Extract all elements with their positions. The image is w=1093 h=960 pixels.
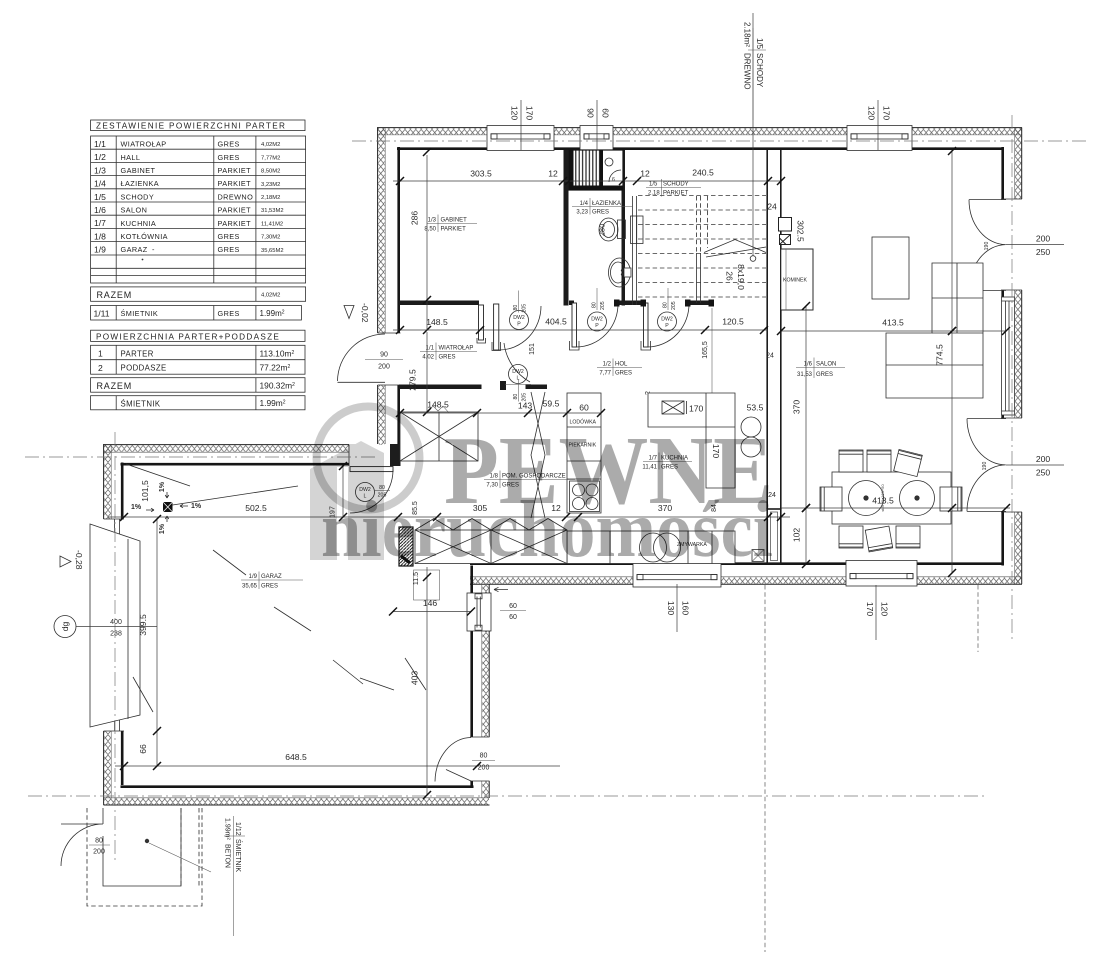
kitchen bottom counter [567, 531, 735, 564]
axis dashdot right wall [1011, 115, 1013, 640]
svg-text:ŁAZIENKA: ŁAZIENKA [592, 201, 621, 207]
svg-text:WIATROŁAP: WIATROŁAP [439, 346, 474, 352]
folding door kitchen/pomgosp [531, 392, 545, 518]
svg-text:165,5: 165,5 [702, 341, 709, 359]
svg-text:2.18: 2.18 [648, 191, 660, 197]
salon rug table [872, 237, 909, 299]
svg-text:302.5: 302.5 [796, 220, 806, 242]
entrance door dim 90/200 [365, 352, 403, 371]
salon double door bottom arcs [967, 419, 1006, 512]
svg-text:250: 250 [1036, 247, 1051, 257]
svg-text:90: 90 [586, 108, 596, 118]
room label wiatrolap [420, 343, 477, 361]
small box below boiler [414, 570, 440, 600]
salon double door top arcs [969, 200, 1006, 291]
svg-text:1/6: 1/6 [804, 362, 813, 368]
axis dashdot left wing wall [114, 432, 116, 862]
window east wall 60/60 [467, 593, 491, 631]
svg-text:400: 400 [110, 619, 122, 626]
svg-text:SCHODY: SCHODY [121, 192, 155, 201]
svg-text:-: - [152, 245, 155, 254]
svg-text:1/3: 1/3 [428, 218, 437, 224]
svg-text:1/3: 1/3 [94, 165, 106, 175]
svg-text:1/12: 1/12 [234, 822, 241, 836]
svg-text:120: 120 [880, 602, 890, 617]
svg-text:80: 80 [95, 838, 103, 845]
dim east window 60/60 [500, 603, 526, 621]
svg-text:HOL: HOL [615, 362, 628, 368]
entrance door arc [338, 334, 386, 381]
top wall outer line [377, 127, 1022, 129]
svg-text:1/2: 1/2 [603, 362, 612, 368]
svg-text:12: 12 [548, 169, 558, 179]
svg-text:11,41M2: 11,41M2 [261, 221, 283, 227]
dim east door 80/200 [472, 753, 495, 772]
svg-text:60: 60 [509, 614, 517, 621]
svg-text:DW2: DW2 [661, 317, 673, 323]
pomgosp counter with X [415, 530, 567, 564]
dim corridor 146 y611 [389, 598, 475, 616]
level marker -0.02 entrance [344, 303, 370, 323]
chairs bottom row [839, 526, 920, 552]
door gabinet arc [499, 306, 541, 350]
svg-text:53.5: 53.5 [747, 403, 764, 413]
svg-text:GRES: GRES [615, 371, 632, 377]
room label hol [597, 359, 642, 377]
salon door dim 200/250 top [984, 234, 1064, 258]
svg-text:GRES: GRES [218, 245, 240, 254]
svg-text:205: 205 [600, 301, 606, 310]
window W2 lazienka 90/60 [580, 126, 613, 151]
svg-text:PARTER: PARTER [121, 349, 154, 358]
svg-text:205: 205 [522, 304, 528, 313]
svg-text:200: 200 [478, 765, 490, 772]
svg-text:P: P [665, 323, 669, 329]
room label pomgosp [484, 471, 575, 489]
axis dashdot wing bottom [28, 795, 985, 797]
svg-text:1/2: 1/2 [94, 152, 106, 162]
pomgosp counter hanger zigzag [415, 519, 567, 531]
room label salon [796, 358, 845, 379]
garage drain [163, 502, 173, 512]
svg-text:1/9: 1/9 [94, 245, 106, 255]
svg-text:200: 200 [1036, 234, 1051, 244]
svg-text:1/7: 1/7 [94, 218, 106, 228]
wall schody/salon double [767, 150, 781, 306]
svg-text:1/4: 1/4 [580, 201, 589, 207]
svg-text:1%: 1% [159, 523, 166, 534]
radiator niche lazienka [631, 216, 644, 244]
svg-text:1.99m2: 1.99m2 [260, 398, 286, 408]
table 1 razem box [91, 287, 306, 301]
wall hall north segments [569, 300, 713, 305]
svg-text:KOMINEK: KOMINEK [783, 278, 807, 284]
svg-text:P: P [517, 322, 521, 328]
dim chain pomgosp y413 [396, 399, 605, 418]
svg-text:GRES: GRES [261, 584, 278, 590]
stairs side wall lines [633, 196, 637, 305]
svg-text:413.5: 413.5 [882, 318, 904, 328]
svg-text:1/11: 1/11 [94, 308, 110, 318]
svg-text:26: 26 [725, 271, 735, 281]
svg-text:60: 60 [579, 403, 589, 413]
dim chain lazienka walls y181 [393, 168, 785, 212]
axis dashdot wing top wall [25, 456, 377, 458]
window W3 salon top 120/170 [847, 126, 912, 151]
svg-text:280: 280 [598, 224, 607, 237]
svg-text:66: 66 [138, 744, 148, 754]
axis dashed below kitchen [764, 585, 766, 952]
svg-text:PARKIET: PARKIET [218, 179, 252, 188]
garage slope arrows and labels [131, 481, 202, 534]
entry arrow corridor [494, 587, 508, 591]
table 2 header box [91, 330, 305, 341]
svg-text:KOTŁÓWNIA: KOTŁÓWNIA [121, 232, 168, 241]
garage east door arc [435, 738, 471, 782]
svg-text:2.18m²: 2.18m² [743, 22, 752, 47]
svg-text:DW2: DW2 [512, 369, 524, 375]
washbasin [609, 258, 632, 287]
svg-text:286: 286 [410, 211, 420, 226]
svg-text:SALON: SALON [816, 362, 836, 368]
garage wing east wall [470, 566, 490, 799]
svg-text:399.5: 399.5 [138, 614, 148, 636]
bar stools [741, 417, 761, 437]
table 1 header box [91, 120, 305, 131]
sofa L-shape [886, 263, 983, 398]
svg-text:80: 80 [513, 394, 519, 400]
chair left [820, 487, 842, 511]
svg-text:774.5: 774.5 [935, 344, 945, 366]
svg-text:GRES: GRES [816, 372, 833, 378]
smietnik dashed boundary [87, 808, 202, 906]
wall kitchen/salon double [767, 306, 781, 510]
svg-text:GRES: GRES [592, 210, 609, 216]
door bubble gabinet [510, 291, 529, 330]
svg-text:nieruchomości: nieruchomości [321, 484, 773, 574]
toilet [599, 218, 626, 241]
svg-text:190: 190 [984, 242, 990, 251]
svg-text:GABINET: GABINET [441, 218, 468, 224]
svg-text:1: 1 [98, 349, 103, 359]
svg-text:1/5: 1/5 [649, 182, 658, 188]
garage wing left wall [104, 444, 124, 805]
marker dg circle [54, 616, 76, 638]
garage door panel in left wall [115, 519, 120, 731]
table 2 grid [91, 345, 305, 374]
svg-text:8x19,0: 8x19,0 [736, 264, 746, 290]
svg-text:80: 80 [480, 753, 488, 760]
svg-text:113.10m2: 113.10m2 [260, 348, 295, 358]
smietnik leader dot [145, 839, 149, 843]
svg-text:ŁAZIENKA: ŁAZIENKA [121, 179, 159, 188]
jamb south wall [500, 381, 506, 390]
kitchen island [648, 393, 735, 488]
svg-text:403: 403 [410, 671, 420, 686]
svg-text:24: 24 [767, 202, 777, 212]
dim garage bottom y766 [115, 752, 560, 770]
svg-text:DW2: DW2 [591, 317, 603, 323]
svg-text:60: 60 [601, 108, 611, 118]
garage ramp trapezoid [90, 524, 153, 727]
table 1 grid [91, 136, 306, 283]
svg-text:PARKIET: PARKIET [218, 219, 252, 228]
smietnik door arc [61, 824, 103, 866]
level marker -0.28 [60, 550, 84, 570]
svg-text:102: 102 [792, 528, 802, 543]
door bubble garage top [356, 483, 391, 502]
smietnik door dim 80/200 [89, 838, 110, 856]
shower lazienka [569, 150, 623, 190]
top wall insulation hatch [377, 128, 1022, 135]
wall lazienka east [622, 150, 626, 306]
stairs cut mark [704, 240, 766, 258]
svg-text:240.5: 240.5 [692, 168, 714, 178]
stairs leader circle [750, 256, 756, 262]
svg-text:170: 170 [525, 106, 535, 121]
axis dashdot top wall [352, 140, 1086, 142]
window label W2 90/60 [586, 100, 611, 150]
svg-text:DW2: DW2 [513, 315, 525, 321]
svg-text:24: 24 [766, 353, 774, 360]
svg-text:80: 80 [663, 302, 669, 308]
svg-text:120: 120 [510, 106, 520, 121]
svg-text:35,65M2: 35,65M2 [261, 248, 284, 254]
svg-text:151: 151 [529, 343, 536, 355]
door gabinet leaf parked [479, 305, 484, 340]
svg-text:31,53M2: 31,53M2 [261, 208, 284, 214]
svg-text:12: 12 [640, 169, 650, 179]
svg-text:GRES: GRES [218, 153, 240, 162]
table 2 razem box [91, 378, 305, 393]
kominek body [781, 249, 813, 310]
kominek flue square 1 [779, 218, 792, 232]
stairs treads dashed [638, 196, 766, 298]
svg-text:1.99m2: 1.99m2 [260, 309, 285, 318]
window W5 salon bottom 120/170 [846, 561, 917, 587]
svg-text:1%: 1% [131, 504, 142, 511]
window label W5 salon 120/170 [865, 585, 890, 640]
svg-text:SCHODY: SCHODY [755, 53, 764, 88]
table 1 smietnik row [91, 306, 302, 321]
svg-text:2: 2 [98, 363, 103, 373]
svg-text:170: 170 [689, 404, 704, 414]
svg-text:-0,02: -0,02 [360, 303, 370, 323]
wall lazienka west [564, 150, 569, 306]
svg-text:1.99m²: 1.99m² [224, 818, 231, 840]
table 2 smietnik box [91, 396, 305, 410]
salon door dim 200/250 bottom [982, 454, 1064, 478]
svg-text:80: 80 [592, 302, 598, 308]
garage wing top wall [104, 444, 401, 466]
door bubble schody [658, 288, 678, 331]
svg-text:190.32m2: 190.32m2 [260, 380, 296, 390]
svg-text:DREWNO: DREWNO [743, 53, 752, 89]
axis dashed below salon [977, 585, 979, 652]
dim salon vertical x806 [792, 302, 811, 568]
svg-text:404.5: 404.5 [545, 317, 567, 327]
svg-text:HALL: HALL [121, 153, 141, 162]
svg-text:6: 6 [612, 177, 615, 183]
svg-text:7,30M2: 7,30M2 [261, 235, 280, 241]
svg-text:GRES: GRES [218, 232, 240, 241]
dim salon vertical x952 [935, 147, 957, 577]
garage top door leaf and arc [350, 471, 393, 514]
smietnik walls [103, 808, 181, 886]
svg-text:SALON: SALON [121, 206, 148, 215]
smietnik label rotated [224, 816, 246, 936]
svg-text:120: 120 [867, 106, 877, 121]
svg-text:8,50M2: 8,50M2 [261, 169, 280, 175]
drain square X floor [752, 550, 764, 562]
svg-text:130: 130 [666, 601, 676, 616]
dim chain hall y330 [393, 317, 774, 360]
svg-text:dg: dg [60, 622, 70, 632]
svg-text:POWIERZCHNIA PARTER+PODDASZE: POWIERZCHNIA PARTER+PODDASZE [96, 332, 280, 341]
svg-text:303.5: 303.5 [470, 169, 492, 179]
svg-text:ŚMIETNIK: ŚMIETNIK [121, 309, 159, 318]
svg-text:3,23: 3,23 [576, 210, 588, 216]
svg-text:648.5: 648.5 [285, 752, 307, 762]
svg-text:200: 200 [93, 849, 105, 856]
door schody leaf [644, 303, 649, 347]
right wall window tall [1002, 297, 1015, 415]
room label garaz [241, 572, 303, 590]
svg-text:ŚMIETNIK: ŚMIETNIK [234, 839, 243, 872]
garage door dim 400/238 [76, 619, 157, 638]
svg-text:GRES: GRES [218, 309, 240, 318]
svg-text:148.5: 148.5 [426, 317, 448, 327]
boiler block [399, 527, 413, 566]
extension line kitchen boundary [711, 308, 713, 396]
island sink [662, 401, 687, 414]
svg-text:GRES: GRES [218, 140, 240, 149]
svg-text:101,5: 101,5 [140, 480, 150, 502]
garage slope diagonals [126, 464, 426, 690]
dim chain main y517 [108, 492, 790, 521]
svg-text:502.5: 502.5 [245, 503, 267, 513]
svg-text:stół 90x160+50: stół 90x160+50 [880, 484, 885, 512]
svg-text:1%: 1% [159, 481, 166, 492]
svg-text:170: 170 [882, 106, 892, 121]
svg-text:279.5: 279.5 [408, 369, 418, 391]
svg-text:2,18M2: 2,18M2 [261, 195, 280, 201]
svg-text:RAZEM: RAZEM [97, 290, 133, 300]
svg-text:ZESTAWIENIE POWIERZCHNI PARTER: ZESTAWIENIE POWIERZCHNI PARTER [96, 122, 286, 131]
svg-text:250: 250 [1036, 468, 1051, 478]
room label kuchnia [642, 453, 692, 471]
svg-text:GARAZ: GARAZ [261, 574, 282, 580]
room label gabinet [424, 215, 477, 233]
svg-text:SCHODY: SCHODY [663, 182, 689, 188]
svg-text:RAZEM: RAZEM [97, 381, 133, 391]
door bubble lazienka [588, 288, 607, 331]
door jamb marks hall [614, 300, 714, 307]
table plates [849, 481, 935, 516]
dishwasher [640, 533, 681, 562]
svg-text:L: L [517, 376, 520, 382]
svg-text:90: 90 [380, 352, 388, 359]
garage wing bottom wall [104, 787, 490, 805]
svg-text:238: 238 [110, 631, 122, 638]
wardrobe bracket [427, 406, 449, 413]
schody top label rotated [743, 22, 767, 120]
svg-text:80: 80 [513, 305, 519, 311]
svg-text:GARAZ: GARAZ [121, 245, 148, 254]
svg-text:PODDASZE: PODDASZE [121, 364, 167, 373]
door lazienka leaf [572, 303, 577, 347]
svg-text:KUCHNIA: KUCHNIA [121, 219, 157, 228]
svg-text:31,53: 31,53 [797, 372, 813, 378]
window label W4 kitchen 160/130 [666, 584, 691, 632]
svg-text:1/1: 1/1 [94, 139, 106, 149]
svg-text:GABINET: GABINET [121, 166, 156, 175]
svg-text:3,23M2: 3,23M2 [261, 182, 280, 188]
svg-text:P: P [595, 323, 599, 329]
window label W1 120/170 [510, 100, 535, 150]
svg-text:1/9: 1/9 [249, 574, 258, 580]
svg-text:1/8: 1/8 [94, 231, 106, 241]
door gabinet leaf [494, 304, 499, 350]
door lazienka arc [577, 303, 619, 347]
svg-text:WIATROŁAP: WIATROŁAP [121, 140, 167, 149]
svg-text:7,77: 7,77 [599, 371, 611, 377]
right wall [1001, 128, 1022, 585]
svg-text:8,50: 8,50 [424, 227, 436, 233]
svg-text:35,65: 35,65 [242, 584, 258, 590]
door schody arc [648, 303, 689, 347]
svg-text:PARKIET: PARKIET [663, 191, 689, 197]
svg-text:4.02: 4.02 [422, 355, 434, 361]
wall stub kitchen/salon south [767, 509, 781, 564]
chairs top row [839, 449, 922, 476]
schody room label [646, 179, 701, 197]
svg-text:146: 146 [423, 598, 438, 608]
door hall-pomgosp arc [504, 343, 530, 382]
window W4 kitchen bottom 160/130 [633, 562, 721, 588]
svg-text:1/4: 1/4 [94, 179, 106, 189]
chair right [940, 487, 962, 511]
watermark logo ring [310, 407, 773, 575]
svg-text:-0,28: -0,28 [74, 550, 84, 570]
wall stub right of hall door [526, 385, 548, 390]
svg-text:200: 200 [1036, 454, 1051, 464]
svg-text:PARKIET: PARKIET [218, 206, 252, 215]
garage drain leader [173, 486, 299, 505]
window label W3 120/170 [867, 100, 892, 150]
svg-text:77.22m2: 77.22m2 [260, 363, 291, 373]
dim garage vertical x157 [138, 515, 161, 770]
door bubble hall-pomgosp [509, 365, 528, 402]
svg-text:1/5: 1/5 [94, 192, 106, 202]
svg-text:1/6: 1/6 [94, 205, 106, 215]
svg-text:120.5: 120.5 [722, 317, 744, 327]
top wall masonry [397, 147, 1004, 150]
dim salon top 413.5 y331 [777, 318, 1010, 336]
svg-text:190: 190 [982, 462, 988, 471]
dim 197 corridor top [330, 462, 348, 521]
dim corridor vertical x427 403 [410, 567, 432, 799]
wardrobe pomgosp [400, 412, 478, 461]
table 1 row texts [94, 139, 284, 260]
svg-text:PARKIET: PARKIET [441, 227, 467, 233]
bottom wall [470, 564, 1022, 585]
svg-text:1/5: 1/5 [755, 38, 764, 50]
svg-text:205: 205 [671, 301, 677, 310]
wall gabinet south [399, 301, 479, 306]
dim 286 and 279.5 vertical x427 [408, 148, 432, 416]
dim salon y508 [781, 504, 1010, 512]
